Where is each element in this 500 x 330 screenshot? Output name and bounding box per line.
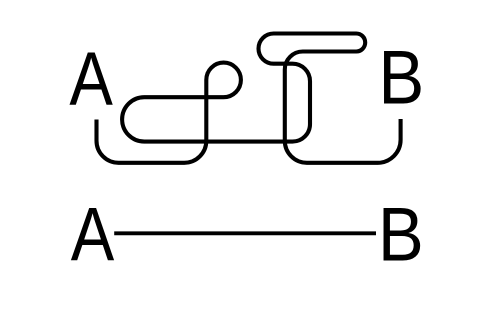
wire (convoluted wire from A to B, top diagram) [97, 34, 401, 163]
svg-text:B: B [378, 36, 424, 121]
svg-text:B: B [378, 192, 424, 277]
svg-text:A: A [69, 36, 113, 121]
svg-text:A: A [71, 192, 115, 277]
wire (straight wire from A to B, bottom diagram) [114, 231, 376, 235]
